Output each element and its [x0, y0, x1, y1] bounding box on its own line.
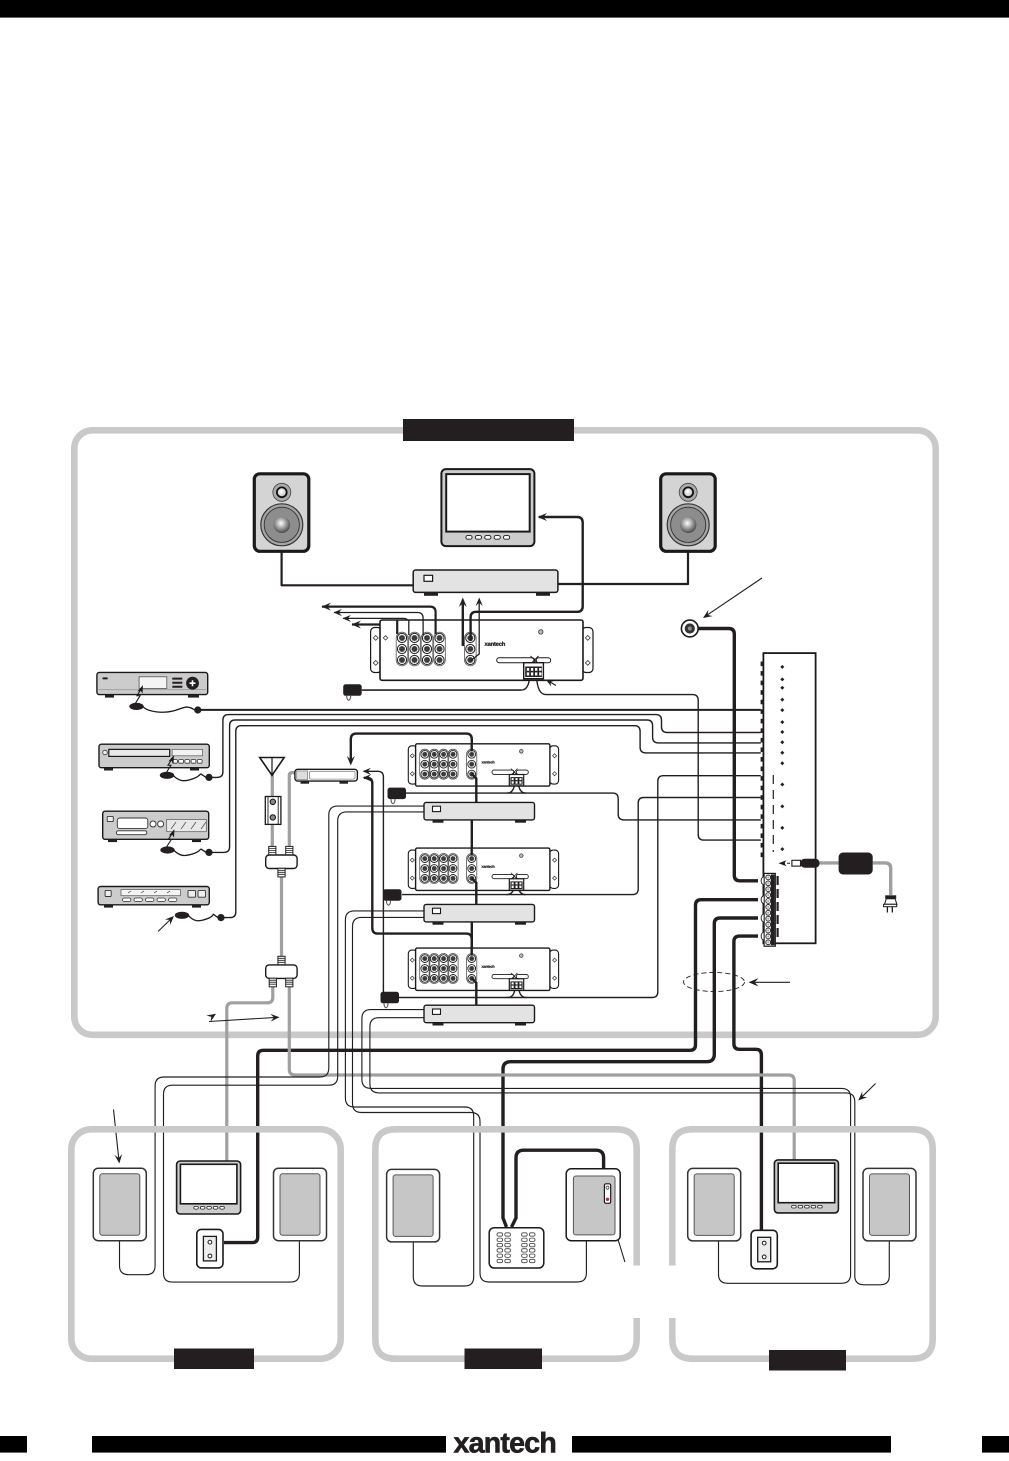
footer logo	[454, 1432, 555, 1453]
footer left square	[0, 1436, 27, 1453]
grounding block	[265, 797, 281, 825]
RF modulator	[295, 769, 358, 783]
source 2: CD player	[99, 744, 209, 770]
room 2 label	[465, 1349, 543, 1370]
power adapter	[820, 853, 891, 896]
IR emitter: source 3	[160, 828, 212, 856]
wires inside zone 2 amp	[472, 848, 477, 890]
main area title label	[403, 419, 574, 441]
room3 right speaker	[863, 1168, 916, 1241]
footer left bar	[92, 1436, 446, 1453]
IR receiver (round)	[681, 620, 698, 637]
main system area frame	[74, 430, 935, 1035]
speaker: main right	[661, 474, 716, 552]
footer right bar	[572, 1436, 891, 1453]
callout: arrow to source4 IR emitter	[282, 552, 414, 586]
room2 keypad	[489, 1228, 544, 1268]
AC plug	[884, 895, 897, 912]
surround receiver	[413, 570, 558, 596]
zone 3 amplifier	[408, 948, 558, 990]
terminal strip on connecting block	[761, 873, 777, 946]
top black banner	[0, 0, 1009, 18]
room 3 frame	[672, 1129, 932, 1358]
zone 2 amplifier	[408, 848, 558, 890]
room2 left speaker	[387, 1169, 440, 1242]
room3 TV	[774, 1160, 838, 1213]
room1 left speaker	[93, 1168, 146, 1241]
footer right square	[982, 1436, 1009, 1453]
TV: main monitor	[441, 469, 534, 546]
room 2 frame	[375, 1129, 636, 1358]
splitter 1 (2-way)	[266, 846, 297, 876]
zone 1 amplifier	[408, 744, 558, 786]
TV antenna	[260, 758, 285, 776]
power supply: zone3 amp	[381, 992, 400, 1008]
room1 volume control	[197, 1229, 223, 1268]
main distribution amp	[371, 620, 593, 680]
power supply: zone1 amp	[388, 788, 407, 804]
source 3: VCR/tape deck	[103, 811, 209, 842]
room3 left speaker	[688, 1168, 741, 1241]
room1 right speaker	[274, 1168, 327, 1241]
room 1 label	[174, 1349, 254, 1370]
IR emitter: source 4	[175, 912, 225, 922]
room 1 frame	[71, 1129, 340, 1358]
source 4: AM/FM tuner	[98, 887, 209, 908]
room1 TV	[177, 1161, 241, 1214]
power supply: main amp	[343, 684, 362, 700]
wires inside zone 3 amp	[472, 948, 477, 990]
room3 volume control	[751, 1230, 777, 1269]
speaker: main left	[254, 474, 308, 552]
room2 IR sensor unit	[566, 1169, 620, 1241]
wires inside main amp (input/output stubs)	[397, 620, 479, 661]
IR emitter: source 2	[160, 754, 213, 781]
source 1: satellite receiver	[97, 672, 208, 697]
wires inside zone 1 amp	[472, 744, 477, 786]
zone 2 tuner/smartpad	[424, 904, 535, 924]
room 3 label	[769, 1350, 846, 1371]
zone 3 tuner/smartpad	[424, 1005, 535, 1025]
splitter 2 (2-way)	[266, 956, 297, 987]
connecting block panel	[761, 653, 816, 943]
DC power plug into block	[779, 859, 820, 868]
zone 1 tuner/smartpad	[424, 802, 535, 822]
IR emitter: source 1	[129, 684, 201, 713]
power supply: zone2 amp	[383, 889, 402, 905]
